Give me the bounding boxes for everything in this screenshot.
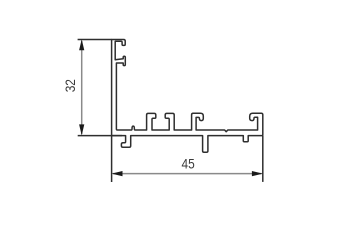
arrow up (32 top) xyxy=(79,39,84,50)
dimension line 32 (vertical, gray) xyxy=(81,41,83,134)
extension line bottom (for 32 dim) xyxy=(78,135,122,137)
dimension line 45 (horizontal, gray) xyxy=(113,173,262,175)
arrow down (32 bottom) xyxy=(79,124,84,135)
extension line right (for 45 dim) xyxy=(262,136,264,182)
arrow right (45) xyxy=(252,171,263,176)
arrow left (45) xyxy=(112,171,123,176)
extension line left (for 45 dim) xyxy=(111,136,113,182)
extension line top (for 32 dim) xyxy=(78,39,112,41)
svg-text:45: 45 xyxy=(181,156,194,172)
aluminium profile outline (single closed contour) xyxy=(112,40,263,153)
svg-text:32: 32 xyxy=(62,79,78,92)
